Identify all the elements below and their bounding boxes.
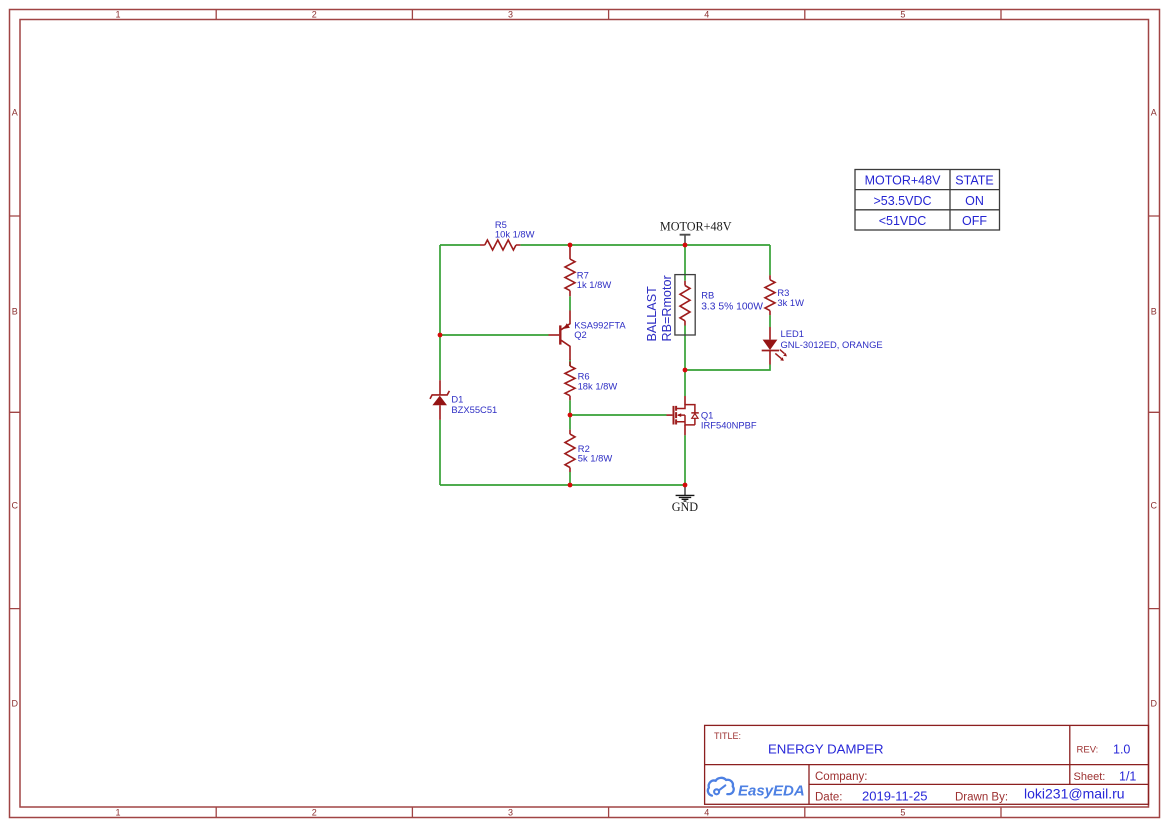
wire: Q2 base wire bbox=[440, 334, 549, 336]
wire: Q1 source to ground node bbox=[684, 435, 686, 485]
resistor R5 bbox=[480, 240, 520, 250]
svg-text:1: 1 bbox=[115, 808, 120, 818]
frame row ticks right bbox=[1149, 216, 1160, 609]
frame row ticks left bbox=[10, 216, 21, 609]
power symbol MOTOR+48V bbox=[680, 235, 691, 244]
svg-text:B: B bbox=[1151, 306, 1157, 316]
svg-text:3.3 5% 100W: 3.3 5% 100W bbox=[701, 301, 763, 312]
svg-text:5: 5 bbox=[900, 10, 905, 20]
zener diode D1 BZX55C51 bbox=[430, 380, 449, 420]
svg-text:1.0: 1.0 bbox=[1113, 742, 1130, 756]
label RB 3.3 5% 100W bbox=[701, 289, 763, 312]
svg-text:GNL-3012ED, ORANGE: GNL-3012ED, ORANGE bbox=[781, 339, 883, 350]
junction node: ground rail bbox=[683, 483, 688, 488]
svg-text:2: 2 bbox=[312, 10, 317, 20]
frame column labels top bbox=[115, 10, 905, 20]
svg-text:D: D bbox=[11, 699, 18, 709]
wire: bottom rail bbox=[440, 484, 685, 486]
svg-text:2019-11-25: 2019-11-25 bbox=[862, 788, 928, 803]
junction node: drain node bbox=[683, 368, 688, 373]
svg-text:MOTOR+48V: MOTOR+48V bbox=[865, 174, 941, 188]
frame row labels left bbox=[11, 108, 18, 709]
svg-text:3: 3 bbox=[508, 10, 513, 20]
svg-text:>53.5VDC: >53.5VDC bbox=[873, 194, 931, 208]
table: motor voltage state bbox=[855, 170, 1000, 231]
resistor R6 bbox=[565, 362, 575, 401]
LED LED1 bbox=[762, 327, 787, 365]
wire: R2 to bottom rail bbox=[569, 472, 571, 485]
frame row labels right bbox=[1151, 108, 1158, 709]
svg-text:C: C bbox=[11, 501, 18, 511]
svg-text:ENERGY DAMPER: ENERGY DAMPER bbox=[768, 742, 884, 757]
svg-text:OFF: OFF bbox=[962, 214, 987, 228]
svg-text:A: A bbox=[12, 108, 18, 118]
wire: Q2 collector to R6 bbox=[569, 360, 571, 366]
svg-text:1/1: 1/1 bbox=[1119, 770, 1136, 784]
svg-text:10k 1/8W: 10k 1/8W bbox=[495, 229, 535, 240]
resistor RB ballast bbox=[680, 281, 690, 326]
svg-text:A: A bbox=[1151, 108, 1157, 118]
svg-text:IRF540NPBF: IRF540NPBF bbox=[701, 420, 757, 431]
svg-text:loki231@mail.ru: loki231@mail.ru bbox=[1024, 786, 1125, 802]
wire: left vertical upper (to D1) bbox=[439, 245, 441, 380]
svg-text:TITLE:: TITLE: bbox=[714, 731, 741, 741]
svg-text:Sheet:: Sheet: bbox=[1074, 771, 1106, 783]
label R3 3k 1W bbox=[777, 287, 804, 308]
wire: R3 to LED1 bbox=[769, 315, 771, 327]
junction node: MOTOR+48V rail bbox=[683, 243, 688, 248]
svg-text:Date:: Date: bbox=[815, 791, 843, 803]
wire: center rail top (to RB) bbox=[684, 245, 686, 281]
svg-text:Drawn By:: Drawn By: bbox=[955, 791, 1008, 803]
wire: LED1 to drain node bbox=[685, 365, 770, 371]
svg-text:RB=Rmotor: RB=Rmotor bbox=[660, 275, 674, 341]
wire: R6 to node B (gate node) bbox=[569, 400, 571, 429]
label R5 10k 1/8W bbox=[495, 219, 535, 240]
wire: right vertical top (to R3) bbox=[769, 245, 771, 275]
label Q2 KSA992FTA bbox=[574, 319, 626, 340]
svg-text:Company:: Company: bbox=[815, 771, 867, 783]
ballast box bbox=[675, 275, 695, 335]
wire: drain node to Q1 drain bbox=[684, 370, 686, 396]
svg-text:REV:: REV: bbox=[1077, 745, 1099, 756]
svg-text:Q2: Q2 bbox=[574, 329, 587, 340]
resistor R7 bbox=[565, 246, 575, 296]
svg-text:3: 3 bbox=[508, 808, 513, 818]
svg-text:RB: RB bbox=[701, 289, 714, 300]
wire: top rail left of R5 bbox=[440, 244, 480, 246]
svg-text:5: 5 bbox=[900, 808, 905, 818]
svg-text:1: 1 bbox=[115, 10, 120, 20]
title block borders bbox=[705, 725, 1149, 804]
svg-text:C: C bbox=[1151, 501, 1158, 511]
svg-text:BZX55C51: BZX55C51 bbox=[451, 404, 497, 415]
wire: R7 to Q2 emitter bbox=[569, 296, 571, 310]
label LED1 GNL-3012ED ORANGE bbox=[781, 328, 883, 350]
svg-text:EasyEDA: EasyEDA bbox=[738, 783, 805, 800]
svg-text:5k 1/8W: 5k 1/8W bbox=[578, 453, 613, 464]
EasyEDA logo bbox=[708, 778, 734, 796]
transistor Q2 KSA992FTA bbox=[549, 311, 571, 361]
wire: left vertical lower (D1 to bottom rail) bbox=[439, 420, 441, 485]
svg-text:3k 1W: 3k 1W bbox=[777, 297, 804, 308]
frame column labels bottom bbox=[115, 808, 905, 818]
svg-text:18k 1/8W: 18k 1/8W bbox=[578, 381, 618, 392]
resistor R2 bbox=[565, 430, 575, 472]
svg-text:ON: ON bbox=[965, 194, 984, 208]
svg-text:2: 2 bbox=[312, 808, 317, 818]
label R6 18k 1/8W bbox=[578, 371, 618, 392]
svg-text:LED1: LED1 bbox=[781, 328, 804, 339]
junction node: gate node bbox=[568, 413, 573, 418]
svg-text:1k 1/8W: 1k 1/8W bbox=[577, 279, 612, 290]
svg-text:B: B bbox=[12, 306, 18, 316]
svg-text:4: 4 bbox=[704, 808, 709, 818]
frame column ticks top bbox=[216, 10, 1001, 20]
label D1 BZX55C51 bbox=[451, 394, 497, 415]
label Q1 IRF540NPBF bbox=[701, 410, 757, 431]
wire: gate wire to Q1 bbox=[570, 414, 667, 416]
label R2 5k 1/8W bbox=[578, 443, 613, 464]
svg-text:4: 4 bbox=[704, 10, 709, 20]
svg-text:<51VDC: <51VDC bbox=[879, 214, 927, 228]
frame column ticks bottom bbox=[216, 807, 1001, 818]
junction node: R5/R7 bbox=[568, 243, 573, 248]
resistor R3 bbox=[765, 275, 775, 315]
label R7 1k 1/8W bbox=[577, 270, 612, 290]
svg-text:STATE: STATE bbox=[955, 174, 993, 188]
ground symbol bbox=[676, 485, 695, 501]
wire: top rail R5 to right corner bbox=[520, 244, 770, 246]
junction node: R2/bottom rail bbox=[568, 483, 573, 488]
svg-text:D: D bbox=[1151, 699, 1158, 709]
MOSFET Q1 IRF540NPBF bbox=[667, 396, 699, 435]
junction node: D1/base bbox=[438, 333, 443, 338]
svg-text:BALLAST: BALLAST bbox=[645, 286, 659, 342]
svg-text:GND: GND bbox=[672, 500, 699, 514]
svg-text:MOTOR+48V: MOTOR+48V bbox=[660, 220, 732, 234]
wire: RB to drain node bbox=[684, 326, 686, 371]
